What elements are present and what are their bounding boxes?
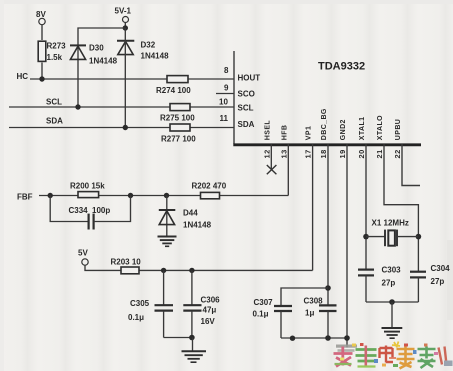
power terminal 8V — [36, 10, 46, 25]
svg-text:X1 12MHz: X1 12MHz — [372, 219, 409, 228]
svg-text:C304: C304 — [431, 264, 451, 273]
wire 5V rail to pin 17 — [85, 265, 313, 270]
wire FBF line to pin 13 — [39, 195, 288, 197]
resistor R274 — [156, 76, 191, 95]
svg-text:18: 18 — [319, 149, 328, 158]
svg-text:HFB: HFB — [282, 125, 289, 141]
svg-text:47μ: 47μ — [203, 306, 217, 315]
color speckles — [352, 344, 356, 347]
svg-text:1N4148: 1N4148 — [183, 221, 212, 230]
svg-text:XTAL1: XTAL1 — [359, 117, 366, 141]
diode D30 — [70, 44, 118, 66]
resistor R202 — [192, 182, 227, 199]
svg-text:SCL: SCL — [238, 104, 254, 113]
char 3 red 电 — [380, 346, 394, 363]
svg-text:C306: C306 — [201, 296, 221, 305]
node junction D32/SDA — [123, 125, 128, 130]
char 5 green — [418, 347, 436, 369]
node junction crystal gnd — [389, 299, 395, 305]
svg-text:HSEL: HSEL — [265, 120, 272, 141]
svg-text:9: 9 — [224, 84, 229, 93]
ground below crystal — [382, 302, 403, 338]
svg-text:1.5k: 1.5k — [47, 53, 63, 62]
pin 20 XTAL1 — [357, 117, 366, 270]
node junction crystal right — [416, 234, 422, 240]
svg-text:SDA: SDA — [238, 120, 255, 129]
svg-text:10: 10 — [219, 98, 228, 107]
svg-text:XTALO: XTALO — [377, 115, 384, 140]
svg-text:8: 8 — [224, 66, 229, 75]
capacitor C334 — [50, 196, 130, 230]
wire HC line — [30, 78, 234, 80]
wire SCL line — [9, 106, 234, 108]
capacitor C308 — [304, 297, 337, 339]
node junction D30/SCL — [75, 104, 80, 109]
svg-text:R274 100: R274 100 — [156, 86, 191, 95]
svg-text:16V: 16V — [201, 317, 216, 326]
node SDA label — [46, 117, 63, 126]
svg-text:SDA: SDA — [46, 117, 63, 126]
node junction C308 bottom — [325, 335, 331, 341]
svg-text:SCL: SCL — [46, 98, 62, 107]
svg-text:17: 17 — [304, 149, 313, 158]
node junction C306 — [189, 268, 194, 273]
svg-text:D32: D32 — [141, 41, 156, 50]
pin 9 SCO — [216, 84, 255, 99]
pin 17 VP1 — [304, 126, 313, 271]
svg-text:TDA9332: TDA9332 — [318, 61, 365, 73]
ground below C306 — [182, 338, 207, 363]
resistor R275 — [160, 104, 195, 123]
wire R273 to HC line — [41, 63, 43, 80]
svg-text:0.1μ: 0.1μ — [128, 313, 144, 322]
diode D44 — [159, 196, 212, 237]
pin 11 SDA — [220, 114, 255, 129]
power terminal 5V — [78, 249, 88, 266]
pin 12 HSEL — [263, 120, 277, 175]
svg-text:1N4148: 1N4148 — [89, 57, 118, 66]
node 5V-1 junction — [123, 25, 128, 30]
node junction R200 right — [128, 193, 133, 198]
svg-text:13: 13 — [280, 149, 289, 158]
node junction crystal left — [363, 234, 369, 240]
wire C307 branch — [281, 288, 328, 306]
svg-text:VP1: VP1 — [306, 126, 313, 140]
svg-text:UPBU: UPBU — [395, 119, 402, 140]
svg-text:1N4148: 1N4148 — [141, 52, 170, 61]
char 1 red — [334, 347, 353, 367]
svg-text:R273: R273 — [47, 42, 67, 51]
svg-text:C305: C305 — [130, 299, 150, 308]
svg-text:FBF: FBF — [17, 193, 33, 202]
pin 18 DBC_BG — [319, 108, 328, 305]
resistor R277 — [161, 124, 196, 144]
node stray junction dot — [290, 336, 295, 341]
ground below D44 — [158, 237, 177, 247]
char 4 orange — [397, 347, 415, 369]
svg-text:GND2: GND2 — [340, 119, 347, 140]
node junction C306 ground — [189, 335, 195, 341]
sparkle — [392, 342, 400, 348]
svg-text:D30: D30 — [89, 44, 104, 53]
svg-text:5V-1: 5V-1 — [115, 7, 132, 16]
svg-text:C334: C334 — [69, 206, 89, 215]
svg-text:C308: C308 — [304, 297, 324, 306]
power terminal 5V-1 — [115, 7, 132, 23]
diode D32 — [117, 41, 169, 61]
svg-text:100p: 100p — [92, 206, 110, 215]
svg-text:27p: 27p — [431, 277, 445, 286]
svg-text:R202 470: R202 470 — [192, 182, 227, 191]
svg-text:R200 15k: R200 15k — [70, 182, 105, 191]
svg-text:R275 100: R275 100 — [160, 114, 195, 123]
pin 13 HFB — [280, 125, 289, 196]
pin 21 XTALO — [375, 115, 418, 272]
wire SDA line — [9, 127, 234, 129]
svg-text:19: 19 — [338, 149, 347, 158]
watermark logo — [334, 342, 453, 369]
svg-text:C303: C303 — [382, 266, 402, 275]
node junction FBF/C334 left — [48, 193, 53, 198]
resistor R200 — [70, 182, 105, 198]
IC U1 TDA9332 outline — [233, 51, 421, 145]
svg-text:22: 22 — [393, 149, 402, 158]
wire 5V-1 rail to D30 — [78, 28, 125, 107]
svg-text:11: 11 — [220, 114, 229, 123]
node junction R273/HC — [39, 76, 44, 81]
svg-text:DBC_BG: DBC_BG — [321, 108, 328, 140]
svg-text:8V: 8V — [36, 10, 46, 19]
svg-text:HOUT: HOUT — [238, 74, 261, 83]
svg-text:27p: 27p — [382, 279, 396, 288]
node junction D44 — [164, 193, 169, 198]
node junction pin19 rail — [344, 335, 350, 341]
pin 19 GND2 — [338, 119, 347, 347]
svg-text:HC: HC — [17, 72, 29, 81]
capacitor C307 — [253, 298, 293, 338]
svg-text:1μ: 1μ — [305, 309, 314, 318]
capacitor C306 — [183, 270, 220, 337]
pin 8 HOUT — [224, 66, 260, 83]
wire C305 bottom to C306 bottom — [164, 337, 192, 339]
wire 5V-1 junction to D32 — [124, 28, 126, 128]
node junction pin18 top rail — [325, 285, 331, 291]
svg-text:21: 21 — [375, 149, 384, 158]
node SCL label — [46, 98, 62, 107]
svg-text:12: 12 — [263, 149, 272, 158]
svg-text:0.1μ: 0.1μ — [253, 310, 269, 319]
char 2 green/red — [356, 350, 377, 362]
resistor R203 — [111, 258, 142, 274]
node junction C305 — [161, 268, 166, 273]
svg-text:SCO: SCO — [238, 90, 255, 99]
crystal X1 12MHz — [366, 219, 418, 247]
svg-text:5V: 5V — [78, 249, 88, 258]
node HC label — [17, 72, 29, 81]
wire 5V-1 down to junction — [124, 23, 126, 29]
svg-text:C307: C307 — [254, 298, 274, 307]
svg-text:R203 10: R203 10 — [111, 258, 142, 267]
node FBF label — [17, 193, 33, 202]
wire crystal ground rail — [366, 301, 418, 303]
svg-text:D44: D44 — [183, 209, 198, 218]
resistor R273 — [38, 41, 66, 62]
capacitor C303 — [358, 266, 401, 303]
pin 22 UPBU — [393, 119, 420, 186]
tail red strokes — [439, 347, 447, 365]
capacitor C305 — [128, 270, 173, 337]
wire 8V to R273 — [41, 25, 43, 40]
svg-text:R277 100: R277 100 — [161, 135, 196, 144]
svg-text:20: 20 — [357, 149, 366, 158]
capacitor C304 — [410, 264, 450, 302]
wire bottom rail C307 C308 to pin 19 — [281, 337, 347, 339]
pin 10 SCL — [219, 98, 254, 113]
